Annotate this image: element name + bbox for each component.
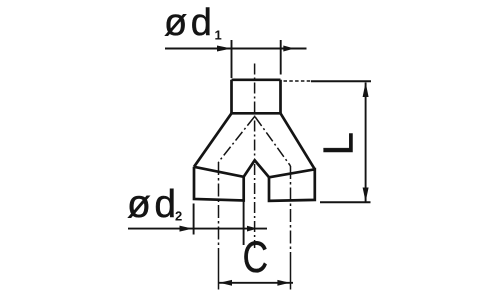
svg-text:ød: ød xyxy=(127,183,180,226)
svg-text:2: 2 xyxy=(175,209,182,224)
svg-text:L: L xyxy=(315,132,362,155)
svg-text:C: C xyxy=(243,233,268,282)
svg-text:ød: ød xyxy=(164,2,215,44)
svg-text:1: 1 xyxy=(215,28,222,43)
